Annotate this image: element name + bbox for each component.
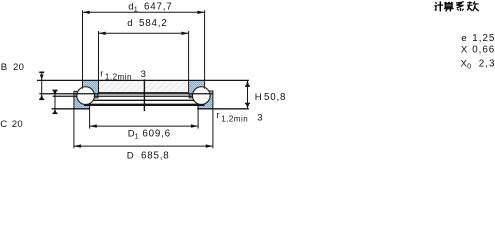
svg-text:685,8: 685,8 xyxy=(141,151,170,162)
svg-text:609,6: 609,6 xyxy=(142,129,171,140)
extension line D left / bottom washer outer edge xyxy=(73,91,75,148)
svg-text:r: r xyxy=(217,110,220,120)
extension line d right / top washer inner edge xyxy=(188,31,190,94)
top washer left blue section xyxy=(83,81,98,93)
dimension C vertical with outside arrows xyxy=(54,90,56,113)
top washer lower boundary line crossing balls, with B leader xyxy=(39,93,213,95)
bottom washer right top cap line xyxy=(210,90,214,92)
extension line d left / top washer inner edge xyxy=(98,31,100,94)
svg-text:3: 3 xyxy=(141,69,146,80)
bearing bottom middle surface line xyxy=(84,104,205,106)
svg-text:e: e xyxy=(461,33,466,44)
svg-text:584,2: 584,2 xyxy=(139,18,168,29)
top washer right inner lip xyxy=(189,94,192,98)
bottom washer right section xyxy=(197,91,213,109)
svg-text:20: 20 xyxy=(12,119,23,130)
dimension line D 685,8 xyxy=(74,145,213,147)
top washer hatched middle band xyxy=(99,81,189,92)
svg-text:D: D xyxy=(127,151,134,162)
svg-text:1: 1 xyxy=(134,5,138,14)
svg-text:d: d xyxy=(127,18,132,29)
svg-text:1,2min: 1,2min xyxy=(105,72,132,81)
bottom washer left top cap line xyxy=(74,90,78,92)
top washer bottom edge line (middle) xyxy=(99,92,189,94)
center axis line xyxy=(143,79,145,111)
svg-text:C: C xyxy=(0,119,7,130)
svg-text:B: B xyxy=(1,62,7,73)
svg-text:20: 20 xyxy=(13,62,24,73)
svg-text:0: 0 xyxy=(467,61,471,70)
ball left xyxy=(77,87,95,105)
top washer right blue section xyxy=(189,81,204,93)
extension line D1 left xyxy=(89,104,91,129)
dimension line d1 647,7 xyxy=(83,11,205,13)
bottom washer bottom line right with H leader xyxy=(197,108,249,110)
svg-text:647,7: 647,7 xyxy=(144,2,173,13)
bearing top surface line with B and H leaders xyxy=(37,79,249,81)
extension line d1 left / top washer left edge xyxy=(82,10,84,88)
extension line D right / bottom washer outer edge xyxy=(212,91,214,149)
svg-text:X: X xyxy=(461,45,468,56)
top washer left inner lip xyxy=(95,94,98,98)
svg-text:H: H xyxy=(255,92,262,103)
dimension B vertical with outside arrows xyxy=(41,72,43,99)
dimension line d 584,2 xyxy=(99,32,189,34)
raceway line upper xyxy=(95,95,193,97)
char xi xyxy=(456,2,464,3)
chinese title 计算系数 drawn as strokes xyxy=(434,1,478,11)
char shu xyxy=(469,1,471,4)
dimension H vertical xyxy=(247,80,249,108)
ball right xyxy=(192,87,210,105)
svg-text:3: 3 xyxy=(257,113,262,124)
bottom washer left section xyxy=(74,91,90,109)
svg-text:r: r xyxy=(100,69,103,79)
char suan xyxy=(445,1,453,3)
svg-text:0,66: 0,66 xyxy=(472,45,495,56)
raceway line lower xyxy=(93,99,194,101)
dimension line D1 609,6 xyxy=(90,125,199,127)
extension line d1 right / top washer right edge xyxy=(204,10,206,88)
char ji xyxy=(435,2,437,3)
svg-text:2,3: 2,3 xyxy=(479,58,495,69)
C dimension top leader line xyxy=(53,95,77,97)
svg-text:1: 1 xyxy=(135,132,139,141)
svg-text:1,2min: 1,2min xyxy=(221,115,248,124)
extension line D1 right xyxy=(197,104,199,129)
svg-text:50,8: 50,8 xyxy=(264,92,286,103)
bottom washer bottom line left with C leader xyxy=(52,108,90,110)
svg-text:1,25: 1,25 xyxy=(472,33,495,44)
